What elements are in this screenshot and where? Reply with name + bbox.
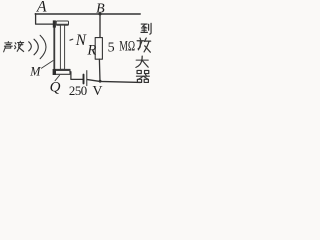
svg-text:Q: Q — [50, 79, 61, 95]
svg-text:5: 5 — [108, 40, 115, 55]
svg-text:N: N — [75, 32, 87, 49]
svg-text:250: 250 — [69, 84, 87, 98]
text 波 (wave) — [15, 41, 24, 51]
svg-text:M: M — [29, 65, 41, 79]
wire: resistor bottom down to bottom rail — [98, 59, 101, 81]
top wire from A corner to right end (to amplifier) — [35, 13, 140, 15]
svg-text:V: V — [93, 83, 103, 98]
leader line from Q to base — [55, 75, 60, 81]
battery negative bar (short, thick) — [83, 75, 85, 84]
text 大 (amplifier char 2) — [136, 56, 148, 67]
leader dash from N to plate — [70, 39, 73, 40]
top support bottom thick edge — [57, 23, 69, 25]
battery positive bar (long, thin) — [86, 71, 88, 86]
plate M bottom terminal block — [53, 69, 56, 75]
wire: base out right, down, to battery — [70, 72, 83, 80]
top insulating support bar — [56, 21, 68, 25]
junction node B (dot) — [99, 13, 102, 16]
text 到 (to) — [141, 23, 151, 34]
junction dot on bottom rail — [99, 80, 102, 83]
resistor R body (rect) — [95, 38, 102, 60]
svg-text:MΩ: MΩ — [119, 39, 135, 55]
sound wave arc 2 (mid) — [34, 39, 38, 55]
sound wave arc 3 (large) — [40, 35, 46, 58]
svg-text:R: R — [86, 43, 96, 59]
leader line from M to plate — [41, 61, 53, 69]
fixed plate N (outlined rectangle) — [60, 25, 64, 69]
wire: left drop from A corner down then right to plate M — [36, 14, 54, 25]
text 声 (sound) — [4, 42, 13, 52]
bottom rail: battery to right end (to amplifier) — [87, 80, 140, 83]
wire: B down to resistor R — [99, 14, 101, 38]
sound wave arc 1 (small) — [29, 42, 32, 51]
text 放 (amplifier char 1) — [137, 38, 151, 52]
text 器 (amplifier char 3) — [136, 70, 149, 82]
base insulating support bar — [54, 69, 70, 74]
microphone plate M (diaphragm, left vertical plate) — [53, 21, 55, 71]
base top thick edge — [55, 69, 70, 71]
plate M top terminal (thicker) — [53, 20, 56, 27]
